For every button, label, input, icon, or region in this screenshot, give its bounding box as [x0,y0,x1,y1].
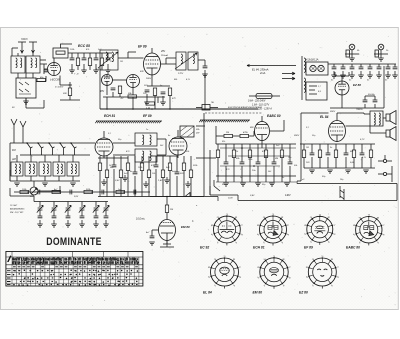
trimmer capacitor CT5 [93,205,99,212]
svg-text:ECH 81: ECH 81 [104,114,115,118]
wire AVC link [98,156,178,158]
trimmer capacitor CT1 [37,205,43,212]
capacitor C7 [111,88,116,90]
svg-text:7000Ω: 7000Ω [356,109,363,111]
wire [387,71,389,75]
wire [333,71,335,75]
capacitor Ch13 [326,153,331,155]
trimmer capacitor CT2 [51,205,57,212]
wire [257,144,259,182]
IF transformer T3 [135,133,157,146]
table row header marks [7,271,11,285]
FM dipole antenna 2 [20,121,26,134]
wire heater drop 3 [351,64,353,67]
capacitor Cf6 [133,172,138,174]
wire [148,156,150,197]
wire EM80 feed [150,192,204,205]
triode EC92 (schematic) [48,63,61,76]
wire [134,156,136,197]
capacitor Cf12 [175,172,180,174]
ground [345,170,351,173]
wire [337,113,386,133]
resistor Rg1 [216,150,219,158]
wire [190,156,192,197]
resistor Rb7 [116,190,125,193]
wire [124,175,126,178]
IF transformer T2a [176,52,186,70]
resistor Rh7 [352,150,355,158]
IF transformer T1 [100,50,118,70]
wire [12,48,46,78]
tube base diagram EC92 [213,215,240,245]
ground [392,75,398,78]
arrow output tap 1 [282,72,295,75]
triode ECC85b (schematic) [102,75,113,86]
resistor R21 [240,134,249,137]
pin labels tube base diagram EZ80 [306,256,339,288]
resistor Rf11 [168,163,171,171]
wire [103,179,105,182]
pentode demod (schematic) [169,130,187,158]
wire [60,96,80,101]
wire [378,71,380,75]
wire [141,156,143,197]
voltage annotations [96,69,365,197]
volume potentiometer P1 [30,181,38,195]
table header shading [12,257,139,264]
wire bus [216,143,296,145]
headphone jack J1 [378,155,392,163]
ground [164,180,170,183]
wire [241,144,243,182]
resistor R3 [88,58,91,66]
svg-text:EL 84: EL 84 [203,291,212,295]
svg-text:0.8A - 220-240V: 0.8A - 220-240V [248,100,266,103]
wire HT rail [247,65,296,67]
power transformer secondary box [306,82,327,100]
svg-text:-2V: -2V [120,98,124,100]
wire [26,98,44,108]
wire [67,202,69,208]
wire anode [262,120,284,148]
tube base diagram EM80 [260,257,289,289]
ground [358,75,364,78]
pin labels tube base diagram EABC80 [353,214,384,244]
wire [39,210,41,216]
svg-text:48V: 48V [100,90,105,93]
ground [160,102,166,105]
wire [53,210,55,216]
dial lamp cluster 1 [345,44,359,58]
wire [176,156,178,197]
svg-text:2mA: 2mA [259,71,266,75]
misc value labels [70,48,367,179]
junction [37,142,39,144]
shield hatch line 2 [199,120,250,122]
wire [155,156,157,197]
wire [39,220,41,224]
capacitor C1 [44,70,49,72]
junction [91,191,93,193]
wire [105,210,107,216]
wire [370,144,372,168]
svg-text:1M: 1M [120,61,123,63]
heater bus wire [328,63,396,65]
switch contacts inside S1 [19,82,31,94]
capacitor C3 [82,58,87,60]
capacitor C5 [106,58,111,60]
IF transformer T2b [188,52,198,70]
capacitor Cg2 [224,162,229,164]
ground [93,70,99,73]
junctions on chassis bus [106,108,206,110]
svg-text:250V: 250V [329,111,336,113]
wire bus [68,53,112,58]
resistor Rb1 [20,190,29,193]
ground [363,170,369,173]
table body value dots [13,269,138,285]
svg-text:EABC 80: EABC 80 [346,246,360,250]
resistor Rf8 [147,170,150,178]
junction [59,191,61,193]
wire [335,144,337,168]
svg-text:28V: 28V [160,51,166,53]
ground [70,183,76,186]
wire heater drop 1 [333,64,335,67]
capacitor Cf3 [112,165,117,167]
wire [225,144,227,182]
wire [196,126,216,158]
svg-text:AM: AM [11,158,16,161]
junction [265,155,267,157]
wire [40,64,70,85]
svg-text:170V: 170V [96,69,102,71]
ground [202,74,208,77]
dial lamp cluster 2 [374,44,388,58]
wire [369,71,371,75]
wire [187,181,189,184]
capacitor Cf9 [154,165,159,167]
svg-text:1M: 1M [170,209,173,211]
capacitor Ch15 [344,153,349,155]
junction [27,191,29,193]
svg-text:140V: 140V [285,194,291,197]
ground [144,102,150,105]
wire [163,241,171,245]
wire [345,144,347,168]
ground [185,184,191,187]
capacitor C6 [68,82,72,88]
band switch contact 5 [71,143,77,155]
capacitor Ch5 [368,67,373,69]
wire [217,197,219,202]
wire AF bus [14,191,150,193]
ground [23,101,29,104]
capacitor Ch2 [341,67,346,69]
table top-row separators [12,252,128,258]
svg-text:0,1: 0,1 [108,133,111,135]
wire [107,80,133,95]
FM dipole antenna 1 [11,119,17,133]
wire [273,144,275,182]
tuning coil L4 [11,162,23,176]
arrow output tap 2 [282,77,295,80]
dial lamps box [306,62,328,75]
resistor R9 [153,88,156,96]
ground [122,178,128,181]
svg-text:0,5V: 0,5V [115,180,120,182]
resistor Rf13 [182,163,185,171]
resistor Rf5 [126,163,129,171]
wire [67,210,69,216]
svg-text:170V: 170V [178,73,184,75]
capacitor C8 [203,66,208,68]
ground [240,183,246,186]
wire [330,72,360,108]
svg-text:EZ 80: EZ 80 [353,83,361,87]
wire [353,144,355,168]
resistor Rh9 [369,150,372,158]
wire trimmer bus [34,201,108,203]
wire [249,144,251,182]
wire [166,177,168,180]
capacitor Cj6 [104,216,109,218]
wire [361,144,363,168]
ground [349,58,355,61]
antenna coil L1 [11,56,25,73]
resistor R7 [128,95,137,98]
wire [95,210,97,216]
svg-text:25V: 25V [29,196,34,198]
wire [342,71,344,75]
svg-text:b ECC85: b ECC85 [50,79,60,82]
capacitor Cb2 [38,190,40,195]
wire [81,210,83,216]
loudspeaker LS1 [386,111,396,125]
resistor Rb3 [52,190,61,193]
scan noise speckles [8,33,396,306]
ground [327,170,333,173]
table subheader marks [13,266,138,268]
wire [25,98,27,101]
junction [253,165,255,167]
capacitor Cj3 [66,216,71,218]
wire [289,144,291,182]
ground [284,183,290,186]
capacitor Cb6 [102,190,104,195]
wire [10,170,80,181]
ground [223,183,229,186]
svg-text:EF 89: EF 89 [304,246,313,250]
tube base diagram EABC80 [355,216,382,246]
resistor Rg9 [280,150,283,158]
wire [10,188,34,202]
svg-text:ECH 81: ECH 81 [253,246,265,250]
ground [376,75,382,78]
wire [9,143,11,181]
tuning coil L7 [53,162,65,176]
pin labels tube base diagram EF89 [304,214,335,244]
capacitor Ch17 [360,153,365,155]
ground [255,183,261,186]
band switch contact 2 [38,143,44,155]
antenna input lead 1 [18,42,26,53]
resistor R2 [76,58,79,66]
trimmer capacitor CT3 [65,205,71,212]
wire [220,148,296,166]
wire [103,92,150,97]
wire [113,139,166,155]
capacitor Cj1 [38,216,43,218]
voltage table frame [6,252,143,287]
svg-text:1.6A - 110-127V: 1.6A - 110-127V [252,104,270,107]
tube base diagram ECH81 [259,215,286,245]
junction [241,147,243,149]
resistor R20 [224,134,233,137]
ground [378,58,384,61]
title DOMINANTE [46,236,102,248]
capacitor Cb4 [70,190,72,195]
wire [81,202,83,208]
wire [147,75,170,102]
resistor Rf1 [98,163,101,171]
ground [385,75,391,78]
antenna coil L2 [26,56,40,73]
tone switch S2 [340,186,344,200]
resistor R5 [68,88,71,96]
capacitor Cg8 [272,162,277,164]
capacitor C4 [94,58,99,60]
heptode ECH81 IF (schematic) [95,131,113,158]
svg-text:CL 5kC: CL 5kC [10,205,18,207]
ground [81,70,87,73]
junction [59,142,61,144]
ground [309,170,315,173]
resistor Rf10 [161,170,164,178]
wire [81,220,83,224]
wire bus2 [216,175,296,177]
ground [269,183,275,186]
trimmer capacitor CT6 [103,205,109,212]
resistor R6 [118,86,121,94]
wire heater drop 2 [342,64,344,67]
ground [79,224,85,227]
antenna input lead 2 [29,42,37,53]
svg-text:2M: 2M [274,158,278,160]
capacitor Cg4 [240,162,245,164]
wire [113,156,115,197]
resistor R4 [100,58,103,66]
wire heater drop 7 [387,64,389,67]
tuning coil L5 [25,162,37,176]
resistor Rb5 [84,190,93,193]
resistor R10 [168,88,171,96]
svg-text:50+50μ: 50+50μ [368,94,376,96]
wire [162,156,164,197]
svg-text:0,8V: 0,8V [74,196,79,198]
resistor R8 [146,102,155,105]
wire [99,156,101,197]
svg-text:0,1: 0,1 [306,127,309,129]
ground [331,75,337,78]
wire ground bus3 [216,181,296,183]
resistor Rf2 [105,170,108,178]
pin labels tube base diagram EC92 [211,214,243,245]
wire [360,71,362,75]
capacitor Ch11 [310,153,315,155]
table corner mark [8,256,12,263]
wire [233,144,235,182]
table header text marks [13,258,139,264]
svg-text:7 - 8: 7 - 8 [74,74,79,76]
capacitor C12 [373,100,378,102]
svg-text:EZ 80: EZ 80 [299,291,308,295]
capacitor C2 [70,58,75,60]
alignment arrow T1 [98,52,118,68]
wire [152,230,159,236]
resistor Rh5 [334,150,337,158]
wire [100,70,205,109]
ground [69,70,75,73]
tuning coil L6 [39,162,51,176]
svg-text:ECC 85: ECC 85 [78,44,90,48]
hatched resistor box 22k/2W [180,126,194,137]
wire [105,202,107,208]
svg-text:FM: FM [12,149,15,152]
table column lines [12,257,139,286]
wire [105,220,107,224]
wire heater drop 6 [378,64,380,67]
svg-text:FM - 10,7 MC: FM - 10,7 MC [10,212,24,214]
wire bus bot [304,167,375,169]
svg-text:250V: 250V [293,135,300,137]
wire [150,97,165,103]
wire [161,58,206,66]
band switch contact 4 [60,143,66,155]
junction [123,191,125,193]
svg-text:EL 84, 250mA: EL 84, 250mA [252,68,269,72]
wire [204,70,206,74]
wire [53,220,55,224]
capacitor Ch6 [377,67,382,69]
svg-text:1n 100V: 1n 100V [55,87,64,89]
wire heater drop 8 [394,64,396,67]
triple diode triode EABC80 (schematic) [255,116,270,141]
wire [394,71,396,75]
wire heater drop 4 [360,64,362,67]
wire [127,156,129,197]
ground [42,183,48,186]
table header separators [6,257,143,269]
wire [204,113,216,196]
wire [30,155,32,181]
wire [44,64,47,74]
wire [311,144,313,168]
wire [95,202,97,208]
svg-text:63V: 63V [140,71,144,73]
resistor Rf14 [189,170,192,178]
capacitor Cg10 [288,162,293,164]
svg-text:4,2kΩ/0,1A: 4,2kΩ/0,1A [306,59,319,62]
resistor Rh3 [318,150,321,158]
wire [169,156,171,197]
wire [210,186,238,201]
ground [14,183,20,186]
svg-text:7ACO: 7ACO [21,38,28,41]
resistor Rf4 [119,170,122,178]
dashed shield border [205,112,262,114]
wire HT to rail [383,66,385,108]
